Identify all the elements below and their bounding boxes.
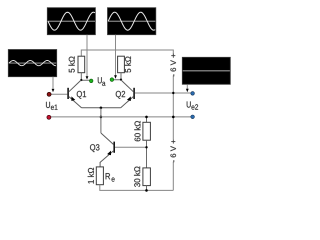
wire battery chain vertical (right): [172, 76, 174, 191]
node divider midpoint to Q3 base: [145, 146, 147, 148]
value label 1 kOhm: [88, 168, 94, 184]
battery V2 -6V+ label (lower): [170, 140, 176, 162]
probe wire from S1 to Q1 collector node: [86, 35, 89, 80]
battery V1 -6V+ label (upper): [170, 54, 176, 76]
probe wire from S2 to Q2 collector node: [114, 35, 117, 79]
label Q1: [77, 91, 86, 99]
value label 30 kOhm: [134, 167, 140, 187]
transistor Q2 (right of diff pair): [121, 80, 192, 108]
node junction 30k bottom on negative rail: [145, 189, 148, 192]
node Ue1 terminal upper (red): [47, 92, 51, 96]
probe wire from S3 to Ue1 input node: [52, 77, 55, 93]
value label 5 kOhm (right): [125, 57, 131, 73]
node Ua left (green measuring point): [89, 79, 93, 83]
value label 60 kOhm: [134, 121, 140, 141]
oscilloscope display S4 (right, input Ue2 flat trace): [182, 57, 230, 84]
label Q3: [90, 144, 99, 152]
node Ue2 terminal upper (blue): [191, 92, 195, 96]
resistor R4 30 kOhm (divider bottom): [143, 168, 151, 191]
wire R2 bottom to Q2 collector node: [113, 73, 121, 80]
resistor R2 5 kOhm (Q2 collector): [118, 56, 125, 72]
transistor Q3 (current source): [100, 133, 147, 167]
wire Re bottom to negative rail: [100, 185, 174, 191]
wire ground rail (0V): [49, 116, 191, 118]
node battery wire crossing Ue2 wire: [172, 92, 174, 94]
node junction Q1 collector: [80, 79, 82, 81]
node junction 60k top on ground rail: [145, 116, 148, 119]
probe wire from S4 to Ue2 input node: [186, 84, 189, 92]
oscilloscope display S3 (left, input signal Ue1): [8, 50, 56, 77]
wire emitter bus Q1-Q2: [82, 107, 121, 109]
label Ue2: [187, 101, 198, 109]
node Ua right (green measuring point): [110, 78, 114, 82]
node junction Q2 collector: [120, 79, 122, 81]
label Ue1: [46, 102, 57, 110]
resistor Re 1 kOhm: [96, 167, 103, 185]
node Ue1 terminal lower (red): [47, 115, 51, 119]
node Ue2 terminal lower (blue): [191, 115, 195, 119]
resistor R3 60 kOhm (divider top): [143, 117, 151, 140]
label Q2: [116, 91, 125, 99]
node emitter junction: [100, 107, 103, 110]
label Re: [106, 173, 115, 181]
node junction on ground rail at x=100.9: [100, 116, 103, 119]
oscilloscope display S2 (top-middle, waveform at Q2 collector): [108, 8, 156, 35]
wire emitter junction down to Q3 collector: [100, 108, 102, 133]
label Ua: [98, 77, 106, 86]
wire +6V supply rail (top): [81, 50, 173, 56]
transistor Q1 (left of diff pair): [49, 80, 81, 108]
value label 5 kOhm (left): [69, 57, 75, 73]
node battery midpoint on ground rail: [172, 116, 175, 119]
wire divider midpoint (60k bottom to 30k top): [146, 140, 148, 168]
oscilloscope display S1 (top-left, Ua waveform at Q1 collector): [47, 8, 95, 35]
resistor R1 5 kOhm (Q1 collector): [78, 56, 85, 72]
wire R1 bottom to Q1 collector node: [81, 73, 90, 81]
